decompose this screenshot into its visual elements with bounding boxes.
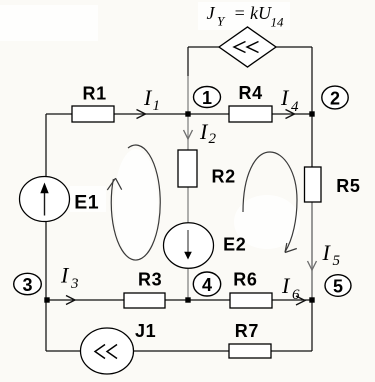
svg-text:2: 2	[209, 131, 217, 147]
svg-text:6: 6	[292, 287, 300, 303]
svg-text:1: 1	[153, 98, 161, 114]
svg-text:3: 3	[22, 275, 32, 295]
svg-text:R2: R2	[212, 167, 236, 187]
svg-text:kU: kU	[250, 3, 272, 23]
svg-text:E1: E1	[74, 192, 99, 214]
svg-text:5: 5	[333, 253, 341, 269]
svg-text:=: =	[234, 3, 246, 23]
svg-text:2: 2	[330, 89, 340, 109]
svg-text:R5: R5	[336, 176, 360, 196]
svg-text:R6: R6	[233, 269, 257, 289]
svg-text:5: 5	[333, 277, 343, 297]
svg-text:14: 14	[271, 15, 285, 30]
svg-text:J: J	[207, 3, 216, 23]
svg-text:J1: J1	[135, 321, 156, 341]
svg-text:4: 4	[202, 275, 212, 295]
svg-text:3: 3	[70, 276, 79, 292]
svg-text:R4: R4	[239, 83, 263, 103]
svg-text:R1: R1	[83, 84, 107, 104]
svg-text:1: 1	[202, 88, 212, 108]
svg-text:R7: R7	[235, 321, 259, 341]
svg-text:R3: R3	[138, 270, 162, 290]
svg-text:4: 4	[291, 99, 299, 115]
svg-text:E2: E2	[223, 234, 246, 254]
